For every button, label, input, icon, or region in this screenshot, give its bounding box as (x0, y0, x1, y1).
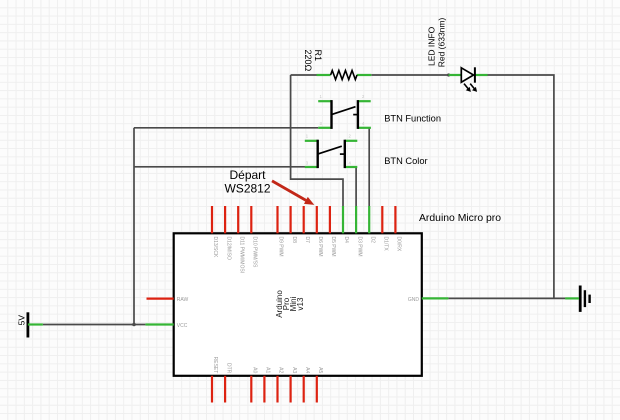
svg-text:WS2812: WS2812 (224, 181, 270, 195)
pin D1/RX (381, 206, 383, 233)
wire GND pin to ground symbol (448, 297, 565, 299)
svg-text:D1/TX: D1/TX (383, 237, 389, 252)
ground symbol (580, 286, 589, 312)
pin D4 (connected) (342, 206, 344, 233)
svg-text:D5 PWM: D5 PWM (330, 237, 336, 257)
pin D11 PWM/MOSI (237, 206, 239, 233)
wire BTN Function left to rail (134, 127, 318, 129)
LED emission arrow 1 (464, 84, 469, 90)
pin GND (connected) (422, 297, 449, 299)
svg-text:5V: 5V (16, 315, 26, 326)
pin D13/SCK (211, 206, 213, 233)
pin A1 (263, 376, 265, 403)
resistor R1 pin left (317, 74, 331, 76)
svg-text:A0: A0 (252, 367, 258, 373)
ground pin (565, 297, 579, 299)
wire left rail (133, 128, 135, 325)
LED emission arrow 2 (470, 84, 475, 90)
pin A5 (316, 376, 318, 403)
top pin labels (212, 237, 401, 274)
svg-text:D8: D8 (291, 237, 297, 244)
svg-text:GND: GND (408, 297, 420, 303)
svg-text:A2: A2 (278, 367, 284, 373)
wire R1 right to LED anode (371, 74, 448, 76)
pin D5 PWM (329, 206, 331, 233)
resistor R1 pin right (357, 74, 372, 76)
LED pin right (cathode) (475, 74, 488, 76)
pin D3 PWM (connected) (355, 206, 357, 233)
resistor R1 body (331, 71, 357, 80)
svg-text:D13/SCK: D13/SCK (212, 237, 218, 259)
pin D12/MISO (224, 206, 226, 233)
pin A4 (303, 376, 305, 403)
pin RESET (211, 376, 213, 403)
svg-text:v13: v13 (296, 297, 305, 310)
pin D7 (303, 206, 305, 233)
svg-text:BTN Function: BTN Function (384, 114, 441, 124)
svg-text:A4: A4 (304, 367, 310, 373)
resistor R1 label (303, 50, 323, 72)
Arduino Pro Mini body U1 (174, 233, 422, 375)
wire BTN Function right down to D2 (368, 128, 370, 207)
pushbutton BTN Function pin numbers (320, 94, 366, 126)
pin D9 PWM (276, 206, 278, 233)
bottom pin labels (212, 357, 323, 374)
pushbutton BTN Function pins (318, 101, 371, 128)
svg-text:VCC: VCC (177, 323, 188, 329)
pushbutton BTN Color pin numbers (306, 134, 352, 166)
svg-text:RESET: RESET (212, 357, 218, 374)
svg-text:Red (633nm): Red (633nm) (436, 18, 446, 68)
wire BTN Color left to rail (134, 166, 305, 168)
LED triangle (461, 68, 473, 82)
pin D8 (290, 206, 292, 233)
wire LED cathode to right rail, down to GND row (488, 75, 554, 298)
svg-text:A3: A3 (291, 367, 297, 373)
pin D2 (connected) (368, 206, 370, 233)
pushbutton BTN Color pins (305, 141, 358, 167)
Arduino module label (275, 290, 305, 318)
svg-text:D10 PWM/SS: D10 PWM/SS (252, 237, 258, 269)
wire 5V to VCC (43, 324, 145, 326)
pin DTR (224, 376, 226, 403)
svg-text:DTR: DTR (225, 363, 231, 374)
annotation red arrow (272, 181, 306, 201)
wire left drop to D4 (Depart WS2812 net) (291, 75, 343, 207)
5V pin (28, 323, 43, 325)
node dot at LED anode wire end (447, 73, 450, 76)
svg-text:D12/MISO: D12/MISO (225, 237, 231, 260)
svg-text:D2: D2 (369, 237, 375, 244)
LED pin left (anode) (449, 74, 462, 76)
svg-text:Arduino Micro pro: Arduino Micro pro (419, 213, 501, 224)
svg-text:A5: A5 (317, 367, 323, 373)
svg-text:D3 PWM: D3 PWM (356, 237, 362, 257)
svg-text:LED INFO: LED INFO (427, 26, 437, 66)
svg-text:220Ω: 220Ω (303, 50, 313, 72)
svg-text:D4: D4 (343, 237, 349, 244)
node junction rail/5V (132, 323, 136, 327)
pin D0/TX (394, 206, 396, 233)
LED label (427, 18, 447, 68)
svg-text:D7: D7 (304, 237, 310, 244)
pin VCC (connected) (145, 323, 173, 325)
power symbol 5V bar (26, 312, 29, 337)
annotation Depart WS2812 (224, 168, 270, 195)
pin D10 PWM/SS (250, 206, 252, 233)
pin A2 (276, 376, 278, 403)
svg-text:RAW: RAW (177, 297, 189, 303)
svg-text:D6 PWM: D6 PWM (317, 237, 323, 257)
LED cathode bar (474, 67, 476, 82)
pushbutton BTN Function body (332, 100, 360, 129)
wire BTN Color right down to D3 (355, 167, 357, 207)
pin A0 (250, 376, 252, 403)
svg-text:R1: R1 (313, 50, 323, 62)
svg-text:Départ: Départ (229, 168, 266, 182)
pin RAW (147, 298, 174, 300)
svg-text:A1: A1 (265, 367, 271, 373)
svg-text:BTN Color: BTN Color (384, 156, 427, 166)
pin A3 (290, 376, 292, 403)
pushbutton BTN Color body (318, 140, 346, 168)
svg-text:D9 PWM: D9 PWM (278, 237, 284, 257)
svg-text:D0/RX: D0/RX (396, 237, 402, 252)
pin D6 PWM (316, 206, 318, 233)
svg-text:D11 PWM/MOSI: D11 PWM/MOSI (238, 237, 244, 274)
wire R1 left to node corner (291, 74, 318, 76)
